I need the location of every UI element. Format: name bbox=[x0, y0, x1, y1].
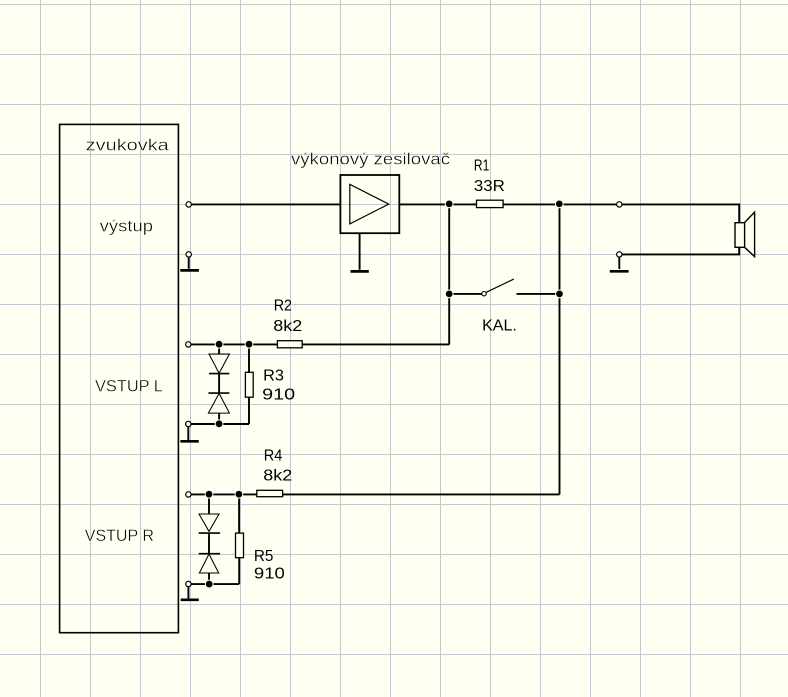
svg-text:R1: R1 bbox=[474, 158, 489, 175]
svg-text:výkonový zesilovač: výkonový zesilovač bbox=[291, 149, 451, 168]
svg-text:R5: R5 bbox=[254, 548, 274, 565]
svg-text:VSTUP L: VSTUP L bbox=[95, 376, 163, 395]
svg-text:R2: R2 bbox=[274, 298, 292, 315]
svg-text:R4: R4 bbox=[264, 448, 283, 465]
svg-text:výstup: výstup bbox=[100, 217, 153, 236]
svg-text:8k2: 8k2 bbox=[263, 468, 292, 485]
svg-text:910: 910 bbox=[254, 565, 285, 582]
svg-text:33R: 33R bbox=[474, 178, 505, 195]
svg-text:910: 910 bbox=[262, 387, 295, 404]
svg-text:8k2: 8k2 bbox=[273, 318, 302, 335]
svg-text:KAL.: KAL. bbox=[482, 318, 517, 335]
svg-text:R3: R3 bbox=[263, 368, 284, 385]
svg-text:zvukovka: zvukovka bbox=[86, 135, 170, 154]
svg-text:VSTUP R: VSTUP R bbox=[85, 526, 154, 545]
